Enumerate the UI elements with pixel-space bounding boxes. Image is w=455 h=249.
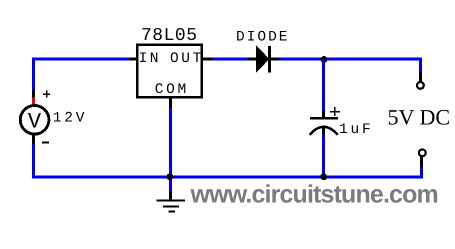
wire: junction down to capacitor C1 <box>322 59 325 111</box>
svg-text:www.circuitstune.com: www.circuitstune.com <box>190 181 438 209</box>
pin: regulator U1 COM pin stub <box>169 98 172 109</box>
svg-text:DIODE: DIODE <box>236 30 290 46</box>
wire: V1 positive to regulator IN (top-left L) <box>34 59 130 91</box>
node: junction dot at diode/capacitor tap <box>321 56 328 63</box>
regulator U1 78L05 box <box>137 45 201 98</box>
wire: COM pin down through rail to ground <box>169 108 172 193</box>
wire: V1 negative to bottom rail and up to output jack (bottom rail) <box>34 144 422 177</box>
terminal J1 positive (open circle) <box>417 82 424 89</box>
pin: V1 positive pin (black part) <box>32 90 35 98</box>
svg-text:IN: IN <box>139 51 161 67</box>
svg-text:COM: COM <box>155 82 189 98</box>
wire: capacitor C1 to bottom rail <box>322 135 325 178</box>
node: junction dot capacitor to bottom rail <box>320 173 327 180</box>
capacitor C1 curved bottom plate <box>310 127 338 135</box>
diode D1 triangle (anode) <box>257 46 269 71</box>
pin: diode D1 cathode lead <box>270 58 280 61</box>
ground symbol (three bars) <box>157 201 186 212</box>
svg-text:12V: 12V <box>53 111 88 127</box>
pin: capacitor C1 positive pin <box>322 110 325 117</box>
node: junction dot COM to bottom rail <box>167 173 174 180</box>
label: minus sign of V1 <box>42 142 49 144</box>
wire: regulator OUT to diode anode <box>213 58 250 61</box>
label: plus sign of V1 <box>43 90 50 97</box>
pin: output jack J2 lead (bottom, negative) <box>420 157 423 167</box>
terminal J2 negative (open circle) <box>419 149 426 156</box>
voltage source V1 (circle body) <box>20 106 49 135</box>
svg-text:5V DC: 5V DC <box>388 105 451 130</box>
pin: output jack J1 lead (top, positive) <box>419 72 422 82</box>
pin: regulator U1 OUT pin stub <box>203 58 213 61</box>
pin: V1 negative pin <box>32 135 35 145</box>
pin: V1 positive pin tip (red) <box>32 98 35 106</box>
pin: diode D1 anode lead <box>248 58 258 61</box>
pin: ground lead <box>169 192 172 200</box>
diode D1 cathode bar <box>268 46 271 72</box>
svg-text:78L05: 78L05 <box>141 26 198 46</box>
svg-text:OUT: OUT <box>170 51 204 67</box>
pin: regulator U1 IN pin stub <box>130 58 138 61</box>
label: plus sign of C1 <box>330 107 340 116</box>
svg-text:1uF: 1uF <box>339 122 374 138</box>
pin: capacitor C1 negative pin <box>322 127 325 136</box>
wire: diode cathode to output jack (top-right L) <box>279 59 421 72</box>
capacitor C1 top plate <box>310 117 338 120</box>
svg-text:V: V <box>28 109 42 134</box>
